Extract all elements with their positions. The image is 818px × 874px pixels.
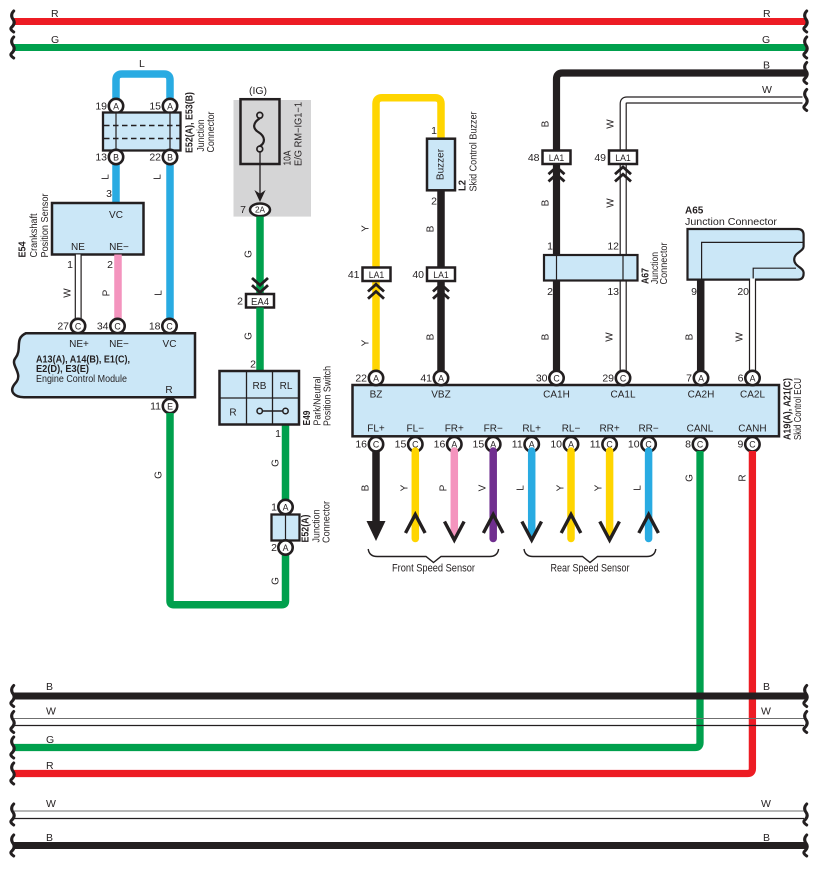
svg-text:G: G	[51, 34, 59, 46]
wire L RR- with up chevron	[633, 451, 659, 539]
svg-text:LA1: LA1	[615, 153, 631, 163]
fuse block shading	[234, 100, 312, 217]
arrow chevrons into 49 LA1	[615, 167, 631, 181]
node 11(E)	[150, 399, 177, 413]
svg-text:15: 15	[149, 101, 161, 113]
svg-text:L: L	[154, 290, 165, 296]
connector EA4	[237, 294, 274, 308]
svg-text:13: 13	[95, 152, 107, 164]
svg-text:(IG): (IG)	[249, 85, 267, 97]
wire L blue loop top	[116, 58, 170, 104]
arrow chevrons into 41 LA1	[368, 284, 384, 298]
node 18(C)	[149, 319, 177, 333]
svg-text:G: G	[271, 459, 282, 467]
svg-text:FR−: FR−	[484, 424, 503, 435]
svg-text:W: W	[735, 332, 746, 342]
svg-text:L: L	[633, 485, 644, 491]
svg-text:W: W	[606, 119, 617, 129]
svg-text:Connector: Connector	[206, 111, 217, 153]
svg-text:48: 48	[528, 152, 540, 164]
arrow chevrons into EA4	[252, 278, 268, 292]
svg-text:G: G	[271, 577, 282, 585]
node 30(C) CA1H	[536, 371, 564, 385]
svg-text:L: L	[101, 174, 112, 180]
wire B bus bottom	[14, 681, 806, 696]
node 1(A) of E52(A)	[271, 500, 293, 514]
svg-text:C: C	[166, 322, 173, 332]
svg-text:Junction Connector: Junction Connector	[685, 217, 778, 228]
svg-text:LA1: LA1	[369, 270, 385, 280]
wire W2 bus bottom (white twin-line)	[14, 798, 804, 819]
wire from fuse to 2A with arrow	[254, 152, 265, 202]
svg-text:R: R	[46, 760, 54, 772]
svg-text:10: 10	[628, 439, 640, 451]
svg-text:2: 2	[431, 196, 437, 208]
wire G from ECM 11(E) to E49 via E52(A)	[154, 413, 286, 605]
wire G from EA4 to E49	[244, 308, 261, 373]
svg-text:E52(A), E53(B): E52(A), E53(B)	[185, 92, 196, 153]
wire B bus top (to CA1H)	[557, 60, 807, 379]
svg-text:LA1: LA1	[433, 270, 449, 280]
svg-text:A: A	[698, 374, 704, 384]
svg-text:FR+: FR+	[445, 424, 464, 435]
wire Y RL- with up chevron	[556, 451, 581, 539]
svg-text:L: L	[153, 174, 164, 180]
svg-text:A: A	[113, 102, 119, 112]
node break symbol R bus right	[804, 11, 807, 32]
svg-text:G: G	[154, 471, 165, 479]
svg-text:G: G	[685, 474, 696, 482]
svg-text:2: 2	[547, 286, 553, 298]
wire R CANH to bottom R bus	[14, 451, 752, 774]
svg-text:Connector: Connector	[322, 500, 333, 543]
svg-text:15: 15	[473, 439, 485, 451]
svg-text:W: W	[761, 706, 771, 718]
wire W CA1L labels	[605, 119, 620, 342]
svg-text:P: P	[439, 484, 450, 491]
wire B2 bus bottom	[14, 832, 806, 846]
wire B from A65 pin 9 to CA2H	[685, 280, 701, 372]
svg-text:E: E	[167, 402, 173, 412]
svg-text:W: W	[605, 332, 616, 342]
svg-text:EA4: EA4	[251, 297, 269, 308]
svg-text:C: C	[553, 374, 560, 384]
svg-text:41: 41	[420, 373, 432, 385]
svg-text:A19(A), A21(C): A19(A), A21(C)	[783, 378, 794, 440]
svg-text:B: B	[541, 333, 552, 340]
svg-text:Connector: Connector	[659, 242, 670, 285]
wire L from 22(B) to ECM VC	[166, 150, 174, 322]
junction connector A67	[544, 242, 670, 285]
svg-text:Y: Y	[400, 484, 411, 491]
svg-text:11: 11	[512, 439, 523, 451]
svg-text:G: G	[46, 734, 54, 746]
svg-text:CA1L: CA1L	[610, 390, 635, 401]
node 41(A) VBZ	[420, 371, 448, 385]
svg-text:A: A	[750, 374, 756, 384]
node break symbol R bus bottom left	[11, 763, 14, 784]
svg-text:RB: RB	[253, 381, 267, 392]
svg-text:B: B	[685, 333, 696, 340]
svg-text:FL−: FL−	[407, 424, 425, 435]
svg-text:A: A	[283, 543, 289, 553]
node 2(A) of E52(A)	[271, 540, 293, 554]
svg-text:E52(A): E52(A)	[301, 515, 312, 543]
node break symbol B bus bottom left	[11, 686, 14, 707]
node break symbol B2 bus left	[11, 835, 14, 856]
node 15(A)	[149, 99, 177, 113]
svg-text:B: B	[113, 153, 119, 163]
svg-text:VC: VC	[109, 210, 123, 221]
svg-text:2A: 2A	[255, 206, 266, 215]
svg-text:10A: 10A	[283, 150, 294, 165]
svg-text:A: A	[167, 102, 173, 112]
svg-text:Crankshaft: Crankshaft	[29, 213, 40, 257]
svg-text:16: 16	[355, 439, 367, 451]
node break symbol B2 bus right	[804, 835, 807, 856]
svg-text:16: 16	[434, 439, 446, 451]
svg-text:B: B	[46, 832, 53, 844]
node break symbol W bus bottom left	[11, 712, 14, 733]
node break symbol W bus bottom right	[804, 712, 807, 733]
node 19(A)	[95, 99, 123, 113]
svg-text:G: G	[244, 250, 255, 258]
svg-text:RL−: RL−	[562, 424, 581, 435]
svg-text:R: R	[165, 385, 172, 396]
node 29(C) CA1L	[602, 371, 630, 385]
arrow chevrons into 40 LA1	[433, 284, 449, 298]
skid control buzzer L2	[427, 111, 480, 192]
wire V FR- with up chevron	[478, 451, 504, 539]
svg-text:Position Switch: Position Switch	[323, 366, 334, 426]
svg-text:C: C	[620, 374, 627, 384]
wire B from buzzer to ECU VBZ	[426, 190, 442, 372]
fuse 10A E/G RM-IG1-1	[241, 99, 305, 166]
svg-text:L: L	[139, 58, 145, 70]
svg-text:13: 13	[607, 286, 619, 298]
svg-text:B: B	[46, 681, 53, 693]
wire Y FL- with up chevron	[400, 451, 426, 539]
svg-text:B: B	[361, 484, 372, 491]
skid control ECU A19(A), A21(C)	[353, 378, 805, 440]
svg-text:R: R	[763, 8, 771, 20]
node 9(C) CANH	[738, 437, 760, 451]
svg-text:9: 9	[691, 286, 697, 298]
node break symbol B bus bottom right	[804, 686, 807, 707]
svg-text:Y: Y	[556, 484, 567, 491]
crankshaft position sensor E54	[18, 193, 144, 258]
svg-text:7: 7	[686, 373, 692, 385]
arrow chevrons into 48 LA1	[549, 167, 565, 181]
svg-text:CANL: CANL	[687, 424, 714, 435]
wire W bus bottom (white twin-line)	[14, 706, 804, 726]
node 22(B)	[149, 150, 177, 164]
node 10(C) RR-	[628, 437, 656, 451]
node break symbol G bus bottom left	[11, 737, 14, 758]
svg-text:B: B	[763, 60, 770, 72]
svg-text:B: B	[167, 153, 173, 163]
svg-text:R: R	[229, 408, 236, 419]
svg-text:B: B	[426, 333, 437, 340]
svg-text:9: 9	[738, 439, 744, 451]
node 34(C)	[97, 319, 125, 333]
wire P FR+ with down arrow	[439, 451, 465, 540]
svg-text:1: 1	[271, 502, 277, 514]
svg-text:Buzzer: Buzzer	[436, 148, 447, 180]
wire Y from ECU BZ to buzzer	[361, 98, 442, 372]
node 16(A) FR+	[434, 437, 462, 451]
svg-text:22: 22	[355, 373, 367, 385]
wire W from A65 pin 20 to CA2L (white twin-line)	[735, 279, 753, 373]
wire Y RR+ with down arrow	[594, 451, 620, 540]
wire G bus top	[14, 34, 806, 48]
svg-text:RL+: RL+	[522, 424, 541, 435]
svg-text:Rear Speed Sensor: Rear Speed Sensor	[551, 563, 630, 575]
svg-text:1: 1	[431, 125, 437, 137]
wire B FL+ with solid arrow	[361, 451, 386, 541]
svg-text:W: W	[46, 706, 56, 718]
svg-text:W: W	[63, 288, 74, 298]
svg-text:B: B	[541, 199, 552, 206]
svg-text:2: 2	[271, 542, 277, 554]
svg-text:C: C	[697, 440, 704, 450]
svg-text:Y: Y	[361, 339, 372, 346]
svg-text:22: 22	[149, 152, 161, 164]
svg-text:G: G	[244, 332, 255, 340]
svg-text:NE−: NE−	[109, 242, 129, 253]
svg-text:7: 7	[240, 204, 246, 216]
wire P from NE-	[102, 255, 119, 323]
node 7(A) CA2H	[686, 371, 708, 385]
node break symbol G bus right	[804, 37, 807, 58]
svg-text:Engine Control Module: Engine Control Module	[36, 374, 127, 385]
node break symbol W2 bus right	[804, 804, 807, 825]
node 16(C) FL+	[355, 437, 383, 451]
svg-text:V: V	[478, 484, 489, 491]
svg-text:B: B	[426, 225, 437, 232]
node 10(A) RL-	[550, 437, 578, 451]
svg-text:W: W	[46, 798, 56, 810]
node 13(B)	[95, 150, 123, 164]
svg-text:CA2L: CA2L	[740, 390, 765, 401]
svg-text:B: B	[763, 832, 770, 844]
park/neutral position switch E49	[220, 366, 334, 426]
svg-text:18: 18	[149, 321, 161, 333]
svg-text:A: A	[283, 503, 289, 513]
svg-text:P: P	[102, 289, 113, 296]
svg-text:BZ: BZ	[370, 390, 383, 401]
svg-text:CA2H: CA2H	[688, 390, 715, 401]
wire L from 13(B) to sensor	[112, 150, 120, 204]
svg-text:8: 8	[685, 439, 691, 451]
svg-text:NE−: NE−	[109, 339, 129, 350]
svg-text:11: 11	[150, 401, 161, 413]
svg-text:49: 49	[594, 152, 606, 164]
svg-text:RL: RL	[280, 381, 293, 392]
svg-text:C: C	[114, 322, 121, 332]
svg-text:FL+: FL+	[367, 424, 385, 435]
svg-text:29: 29	[602, 373, 614, 385]
svg-text:W: W	[761, 798, 771, 810]
junction connector E52(A)	[272, 500, 333, 543]
svg-text:B: B	[541, 120, 552, 127]
svg-text:1: 1	[67, 259, 73, 271]
junction connector A65	[685, 206, 804, 280]
svg-text:20: 20	[737, 286, 749, 298]
svg-text:3: 3	[106, 188, 112, 200]
connector 41 LA1	[348, 268, 391, 282]
node break symbol R bus left	[11, 11, 14, 32]
svg-text:E54: E54	[18, 241, 29, 257]
svg-text:10: 10	[550, 439, 562, 451]
svg-text:C: C	[373, 440, 380, 450]
svg-text:2: 2	[250, 359, 256, 371]
svg-text:A: A	[438, 374, 444, 384]
node 15(A) FR-	[473, 437, 501, 451]
engine control module A13	[12, 333, 195, 397]
svg-text:RR−: RR−	[638, 424, 658, 435]
node 8(C) CANL	[685, 437, 707, 451]
svg-text:L: L	[516, 485, 527, 491]
svg-text:Y: Y	[361, 225, 372, 232]
brace rear speed sensor	[524, 549, 656, 575]
svg-text:C: C	[75, 322, 82, 332]
node 22(A) BZ	[355, 371, 383, 385]
wire B CA1H labels	[541, 120, 554, 340]
svg-text:2: 2	[107, 259, 113, 271]
svg-text:R: R	[51, 8, 59, 20]
junction connector E52(A), E53(B)	[103, 92, 217, 153]
svg-text:B: B	[763, 681, 770, 693]
svg-text:11: 11	[590, 439, 601, 451]
svg-text:Skid Control ECU: Skid Control ECU	[793, 378, 804, 440]
svg-text:Skid Control Buzzer: Skid Control Buzzer	[469, 111, 480, 192]
svg-text:Position Sensor: Position Sensor	[40, 193, 51, 258]
svg-text:Y: Y	[594, 484, 605, 491]
node 6(A) CA2L	[738, 371, 760, 385]
node break symbol W top right	[804, 90, 807, 111]
wire W from NE (white twin-line)	[63, 255, 79, 324]
svg-text:15: 15	[395, 439, 407, 451]
svg-text:VBZ: VBZ	[431, 390, 450, 401]
svg-text:1: 1	[547, 241, 553, 253]
svg-text:27: 27	[57, 321, 69, 333]
node 11(A) RL+	[512, 437, 539, 451]
svg-text:LA1: LA1	[549, 153, 565, 163]
svg-text:40: 40	[412, 269, 424, 281]
svg-text:1: 1	[275, 428, 281, 440]
svg-text:NE+: NE+	[69, 339, 89, 350]
svg-text:CANH: CANH	[738, 424, 766, 435]
svg-text:30: 30	[536, 373, 548, 385]
wire R bus top	[14, 8, 806, 22]
node break symbol G bus left	[11, 37, 14, 58]
svg-text:34: 34	[97, 321, 109, 333]
node 15(C) FL-	[395, 437, 423, 451]
svg-text:C: C	[749, 440, 756, 450]
svg-text:A: A	[373, 374, 379, 384]
svg-text:41: 41	[348, 269, 360, 281]
brace front speed sensor	[368, 549, 498, 575]
svg-text:W: W	[606, 198, 617, 208]
wire G from 2A to EA4	[244, 217, 261, 296]
svg-text:L2: L2	[458, 180, 469, 191]
connector 49 LA1	[594, 151, 637, 165]
svg-text:R: R	[738, 474, 749, 481]
svg-text:CA1H: CA1H	[543, 390, 570, 401]
svg-text:NE: NE	[71, 242, 85, 253]
node break symbol W2 bus left	[11, 804, 14, 825]
svg-text:W: W	[762, 84, 772, 96]
svg-text:VC: VC	[163, 339, 177, 350]
svg-text:RR+: RR+	[599, 424, 619, 435]
node 27(C)	[57, 319, 85, 333]
wire G CANL to bottom G bus	[14, 451, 700, 748]
svg-text:19: 19	[95, 101, 107, 113]
wire W bus top (to CA1L, white twin-line)	[623, 84, 802, 379]
svg-text:G: G	[762, 34, 770, 46]
node break symbol B top right	[804, 63, 807, 84]
svg-text:E49: E49	[302, 410, 313, 425]
svg-text:12: 12	[607, 241, 619, 253]
svg-text:Front Speed Sensor: Front Speed Sensor	[392, 563, 475, 575]
node 7(2A)	[240, 204, 270, 217]
svg-text:2: 2	[237, 296, 243, 308]
connector 48 LA1	[528, 151, 571, 165]
connector 40 LA1	[412, 268, 455, 282]
node 11(C) RR+	[590, 437, 617, 451]
svg-text:6: 6	[738, 373, 744, 385]
svg-text:E/G RM−IG1−1: E/G RM−IG1−1	[294, 102, 305, 166]
svg-text:A65: A65	[685, 206, 704, 217]
wire L RL+ with down arrow	[516, 451, 542, 540]
